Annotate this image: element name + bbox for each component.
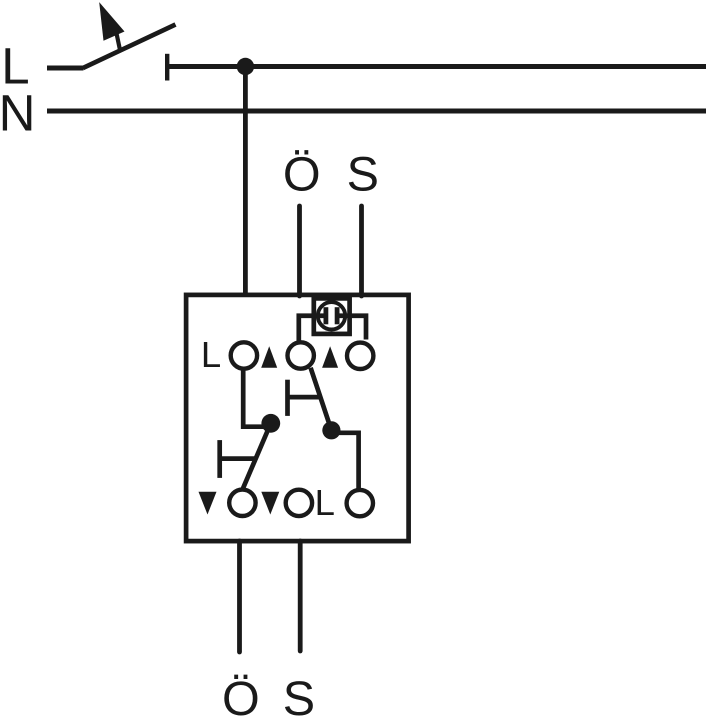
svg-text:S: S (283, 672, 315, 720)
terminal circle bottom-middle (286, 490, 312, 516)
switch unit box outline (186, 295, 409, 541)
glow lamp E1 left electrode (323, 307, 328, 324)
glow lamp E1 left lead (299, 316, 326, 342)
linkage T-bar 1 horizontal (288, 395, 322, 400)
wire feed from junction to box (243, 67, 248, 297)
terminal circle bottom-left (229, 490, 255, 516)
pivot dot 2 (322, 421, 340, 439)
svg-text:L: L (315, 482, 335, 523)
rocker blade 1 from top-middle terminal to pivot dot 2 (311, 368, 332, 431)
glow lamp E1 square (314, 298, 350, 334)
glow lamp E1 circle (318, 302, 345, 329)
svg-text:Ö: Ö (222, 672, 260, 720)
svg-text:Ö: Ö (283, 148, 321, 202)
arrow up marker 1 (261, 346, 277, 368)
junction dot on L bus (237, 58, 254, 75)
terminal circle top-right (347, 343, 373, 369)
terminal circle top-left (231, 342, 257, 368)
glow lamp E1 right electrode (335, 307, 340, 324)
terminal circle top-middle (288, 342, 314, 368)
glow lamp E1 right lead (337, 316, 366, 340)
wire Ö input (297, 206, 302, 296)
svg-text:S: S (347, 148, 379, 202)
switch S1 fixed contact (165, 54, 169, 81)
wire S input (359, 206, 364, 296)
switch S1 actuator arrow shaft (116, 31, 120, 50)
arrow up marker 2 (322, 346, 338, 368)
wire L stub (47, 66, 84, 71)
linkage T-bar 2 vertical (217, 440, 222, 478)
pivot dot 1 (261, 414, 280, 433)
wire S output (298, 541, 303, 651)
rocker blade 2 from pivot dot 1 to bottom-left terminal (243, 423, 271, 489)
arrow down marker 2 (261, 492, 279, 515)
wire Ö output (237, 541, 242, 652)
wire L bus (169, 64, 706, 69)
svg-text:N: N (0, 85, 35, 142)
switch S1 blade (83, 25, 176, 69)
arrow down marker 1 (199, 492, 217, 515)
terminal circle bottom-right (347, 490, 373, 516)
wire N bus (47, 109, 706, 114)
switch S1 actuator arrow head (99, 2, 124, 41)
linkage T-bar 2 horizontal (220, 456, 256, 461)
wire from top-left terminal to pivot dot 1 (243, 369, 266, 427)
svg-text:L: L (201, 334, 221, 375)
linkage T-bar 1 vertical (285, 380, 290, 416)
wire from pivot dot 2 to bottom-right terminal (331, 433, 358, 489)
